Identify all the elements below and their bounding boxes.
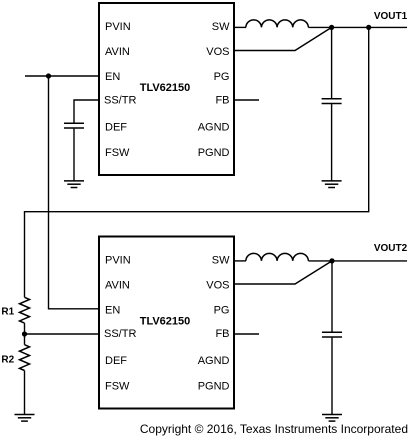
wire U1 SW to inductor L1 xyxy=(234,26,246,28)
ground symbol below C1 xyxy=(64,181,84,188)
svg-text:AGND: AGND xyxy=(198,355,230,367)
svg-text:R2: R2 xyxy=(1,355,14,366)
node junction dot L1/C2/VOS xyxy=(329,25,334,30)
wire U1 FB stub xyxy=(234,99,259,101)
wire U1 VOS sense xyxy=(234,27,332,50)
wire U1 EN input xyxy=(25,75,99,77)
svg-text:PG: PG xyxy=(214,71,230,83)
svg-text:VOUT2: VOUT2 xyxy=(374,243,408,254)
IC U1 TLV62150 top regulator body xyxy=(99,3,234,175)
capacitor C3 output bottom xyxy=(322,332,342,337)
svg-text:SW: SW xyxy=(212,254,230,266)
wire U2 SW to inductor L2 xyxy=(234,260,246,262)
svg-text:VOS: VOS xyxy=(206,46,229,58)
wire R2 to ground xyxy=(24,371,26,415)
IC U2 TLV62150 bottom regulator body xyxy=(99,237,234,409)
inductor L1 xyxy=(246,20,309,28)
node junction dot VOUT1 feedback tap xyxy=(366,25,371,30)
svg-text:TLV62150: TLV62150 xyxy=(140,316,191,328)
svg-text:EN: EN xyxy=(105,304,120,316)
svg-text:DEF: DEF xyxy=(105,355,127,367)
svg-text:EN: EN xyxy=(105,71,120,83)
svg-text:R1: R1 xyxy=(1,307,14,318)
ground symbol below C2 xyxy=(322,181,342,188)
capacitor C1 soft-start xyxy=(64,123,84,128)
svg-text:SS/TR: SS/TR xyxy=(104,328,136,340)
wire L2 to VOUT2 rail xyxy=(308,260,407,262)
wire divider midpoint to U2 SS/TR xyxy=(25,333,100,335)
wire VOUT1 feedback to divider xyxy=(25,27,369,297)
wire VOUT1 node to C2 xyxy=(331,27,333,98)
svg-text:AVIN: AVIN xyxy=(105,46,130,58)
ground symbol below R2 xyxy=(15,415,35,422)
svg-text:VOS: VOS xyxy=(206,280,229,292)
svg-text:FSW: FSW xyxy=(105,147,130,159)
wire U2 FB stub xyxy=(234,333,259,335)
svg-text:AVIN: AVIN xyxy=(105,280,130,292)
svg-text:PGND: PGND xyxy=(198,147,230,159)
svg-text:AGND: AGND xyxy=(198,121,230,133)
svg-text:Copyright © 2016, Texas Instru: Copyright © 2016, Texas Instruments Inco… xyxy=(140,422,408,436)
wire U1 SS/TR to C1 xyxy=(74,100,99,123)
svg-text:SW: SW xyxy=(212,21,230,33)
inductor L2 xyxy=(246,253,309,261)
svg-text:SS/TR: SS/TR xyxy=(104,95,136,107)
svg-text:FSW: FSW xyxy=(105,380,130,392)
svg-text:PVIN: PVIN xyxy=(105,254,131,266)
wire C2 to ground xyxy=(331,104,333,181)
svg-text:PG: PG xyxy=(214,304,230,316)
wire C3 to ground xyxy=(331,338,333,415)
wire VOUT2 node to C3 xyxy=(331,261,333,332)
svg-text:DEF: DEF xyxy=(105,121,127,133)
wire L1 to VOUT1 rail xyxy=(308,26,407,28)
node junction dot divider midpoint xyxy=(22,331,27,336)
svg-text:PGND: PGND xyxy=(198,380,230,392)
svg-text:VOUT1: VOUT1 xyxy=(374,11,408,22)
svg-text:FB: FB xyxy=(215,95,229,107)
node junction dot on U1 EN line xyxy=(46,73,51,78)
resistor R2 xyxy=(20,345,30,371)
svg-text:TLV62150: TLV62150 xyxy=(140,82,191,94)
capacitor C2 output top xyxy=(322,99,342,104)
wire C1 to ground xyxy=(73,129,75,181)
wire U2 VOS sense xyxy=(234,261,332,284)
resistor R1 xyxy=(20,297,30,323)
ground symbol below C3 xyxy=(322,415,342,422)
svg-text:PVIN: PVIN xyxy=(105,21,131,33)
wire R1 to R2 xyxy=(24,323,26,345)
node junction dot L2/C3/VOS xyxy=(329,258,334,263)
wire EN rail to U2 EN xyxy=(49,76,100,309)
svg-text:FB: FB xyxy=(215,328,229,340)
